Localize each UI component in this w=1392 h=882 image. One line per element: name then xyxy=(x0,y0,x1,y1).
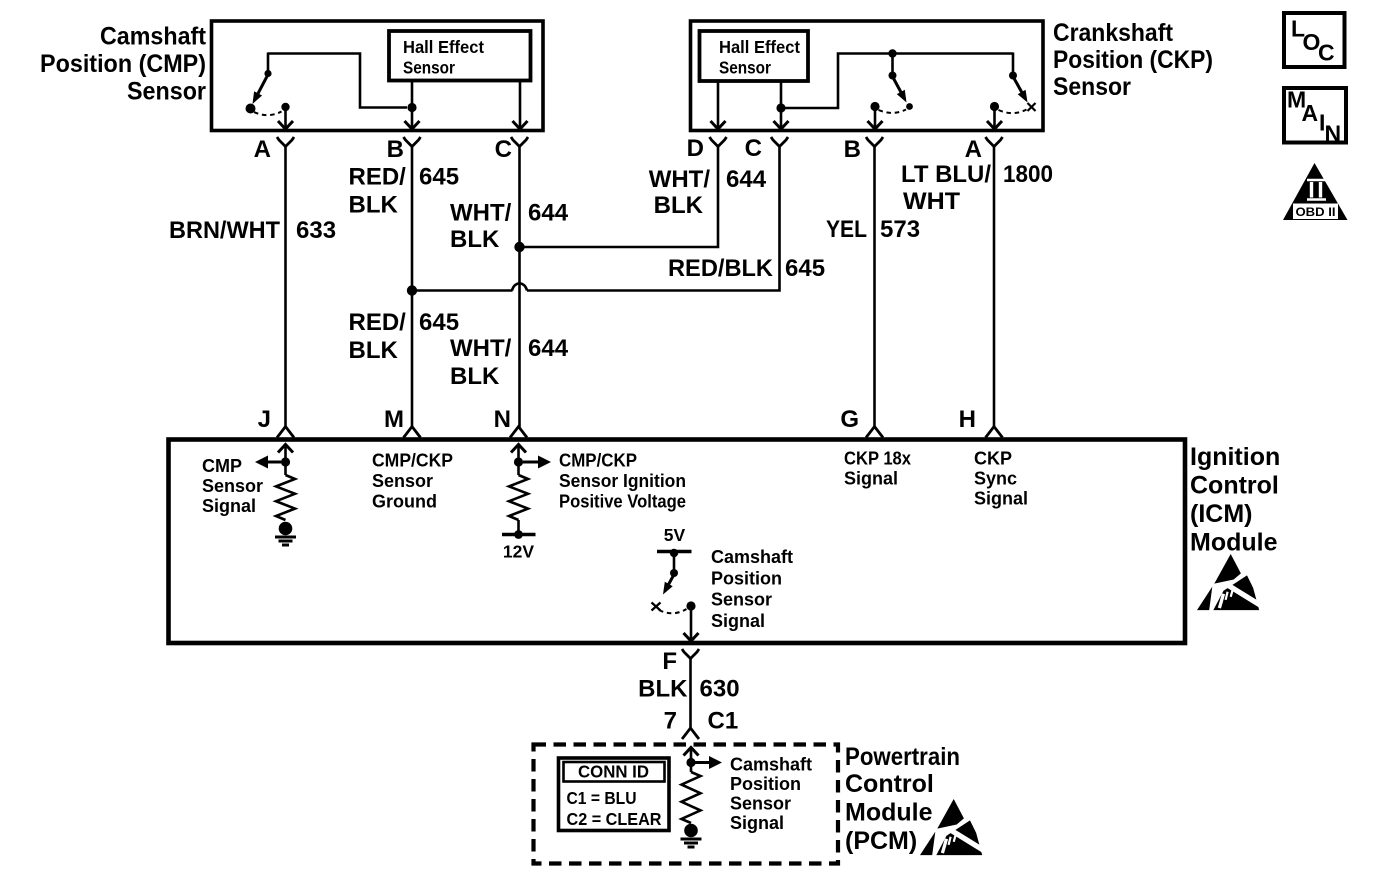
svg-text:Ignition: Ignition xyxy=(1190,443,1280,471)
svg-text:CONN ID: CONN ID xyxy=(578,762,649,782)
wire Hall(CMP) left lead xyxy=(411,80,414,104)
svg-text:644: 644 xyxy=(726,166,767,193)
svg-text:YEL: YEL xyxy=(826,216,867,243)
pin 7 male connector half xyxy=(682,728,699,739)
wire LT BLU/WHT 1800 (A to H) xyxy=(993,147,996,428)
wire BLK 630 (F to PCM) xyxy=(689,658,692,729)
svg-text:Module: Module xyxy=(1190,529,1278,557)
svg-text:C1: C1 xyxy=(708,708,739,735)
MAIN reference box xyxy=(1284,88,1346,143)
CMP switch right contact dot (pin A) xyxy=(281,103,289,111)
CKP switch A x-contact xyxy=(1028,103,1036,111)
svg-text:644: 644 xyxy=(528,335,569,362)
CKP switch B pivot dot xyxy=(889,72,897,80)
resistor R3 xyxy=(682,772,701,823)
svg-text:BLK: BLK xyxy=(349,192,399,219)
svg-text:BLK: BLK xyxy=(654,192,704,219)
wire 645 horizontal left of hop xyxy=(412,289,513,292)
svg-text:Sensor: Sensor xyxy=(403,58,455,78)
svg-text:CMP/CKP: CMP/CKP xyxy=(559,451,637,471)
junction dot CKP rail / switch B xyxy=(888,49,896,57)
svg-text:CMP/CKP: CMP/CKP xyxy=(372,451,453,471)
wire R2 to 12V rail xyxy=(517,520,520,534)
svg-text:(PCM): (PCM) xyxy=(845,827,917,855)
arrow to pin B (CKP) xyxy=(874,110,877,129)
wire to resistor R3 xyxy=(690,763,693,773)
CKP sensor outline box xyxy=(691,21,1044,131)
svg-text:C: C xyxy=(1318,40,1335,66)
pin G male connector half xyxy=(866,427,883,438)
svg-text:N: N xyxy=(494,406,511,433)
pin A female connector half xyxy=(277,137,294,147)
svg-text:A: A xyxy=(965,136,982,163)
arrow up into pin N xyxy=(517,446,520,459)
svg-text:Sensor: Sensor xyxy=(127,78,206,106)
dot on 5V bar xyxy=(670,549,678,557)
svg-text:BLK: BLK xyxy=(349,337,399,364)
CKP switch A dashed arc xyxy=(999,110,1027,114)
wire CKP switch B stub xyxy=(891,54,894,74)
svg-text:Hall Effect: Hall Effect xyxy=(403,37,484,57)
CONN ID table box xyxy=(559,758,670,831)
pin N male connector half xyxy=(510,427,527,438)
svg-text:7: 7 xyxy=(664,708,677,735)
svg-text:Camshaft: Camshaft xyxy=(100,23,207,51)
svg-text:Signal: Signal xyxy=(974,489,1028,509)
svg-text:B: B xyxy=(844,136,861,163)
svg-text:BRN/WHT: BRN/WHT xyxy=(169,217,280,244)
label Camshaft Position (CMP) Sensor xyxy=(40,23,207,106)
ESD-sensitive symbol (ICM) xyxy=(1197,554,1263,610)
svg-text:Signal: Signal xyxy=(202,496,256,516)
svg-text:CMP: CMP xyxy=(202,456,242,476)
pin A female connector half xyxy=(986,137,1003,147)
5V supply bar xyxy=(657,550,692,553)
Powertrain Control Module (PCM) dashed box xyxy=(534,745,839,864)
LOC reference box xyxy=(1284,13,1345,67)
arrow up into pin 7 (PCM) xyxy=(690,749,693,761)
svg-text:C1 = BLU: C1 = BLU xyxy=(567,788,637,808)
svg-text:Camshaft: Camshaft xyxy=(730,755,812,775)
switch S4 pivot dot xyxy=(670,569,678,577)
pin C female connector half xyxy=(511,137,528,147)
ESD-sensitive symbol (PCM) xyxy=(920,799,986,855)
wire Hall(CKP) to switch rail xyxy=(781,54,1013,109)
CMP sensor outline box xyxy=(212,21,544,131)
svg-text:C: C xyxy=(495,136,512,163)
junction dot Hall(CKP)-C xyxy=(776,103,785,112)
svg-text:5V: 5V xyxy=(664,525,686,545)
svg-text:WHT/: WHT/ xyxy=(649,166,711,193)
svg-text:645: 645 xyxy=(419,309,459,336)
svg-text:A: A xyxy=(254,136,271,163)
arrow CMP/CKP ignition voltage (right) xyxy=(523,461,540,464)
svg-text:F: F xyxy=(662,648,677,675)
switch S4 x-contact xyxy=(652,603,661,611)
arrow to pin C (CKP) xyxy=(780,111,783,128)
pin C female connector half xyxy=(771,137,788,147)
arrow to pin A (CKP) xyxy=(993,110,996,129)
svg-text:Module: Module xyxy=(845,799,933,827)
wire Hall(CMP) right lead + arrow to pin C xyxy=(519,80,522,128)
svg-text:A: A xyxy=(1302,100,1319,126)
arrow up into pin J xyxy=(284,446,287,459)
CMP switch pivot dot xyxy=(264,70,271,77)
CKP pin A contact dot xyxy=(990,102,999,111)
svg-text:D: D xyxy=(687,135,704,162)
svg-text:WHT: WHT xyxy=(903,188,960,215)
wire J to resistor R1 xyxy=(284,462,287,475)
svg-text:B: B xyxy=(387,136,404,163)
svg-text:RED/: RED/ xyxy=(349,309,407,336)
svg-text:Sensor: Sensor xyxy=(730,794,791,814)
pin H male connector half xyxy=(986,427,1003,438)
arrow to pin B xyxy=(411,111,414,128)
svg-text:Sensor: Sensor xyxy=(1053,73,1131,101)
CKP switch B blade S2 xyxy=(893,77,905,99)
svg-text:(ICM): (ICM) xyxy=(1190,500,1252,528)
svg-text:Positive Voltage: Positive Voltage xyxy=(559,491,686,511)
svg-text:Sensor Ignition: Sensor Ignition xyxy=(559,471,686,491)
wire CMP switch common to Hall pin B net xyxy=(268,54,407,108)
svg-text:Crankshaft: Crankshaft xyxy=(1053,19,1174,47)
wire WHT/BLK 644 branch (CKP D leg) xyxy=(524,147,718,248)
wire N to resistor R2 xyxy=(517,462,520,475)
svg-text:573: 573 xyxy=(880,216,920,243)
svg-text:H: H xyxy=(959,406,976,433)
svg-text:WHT/: WHT/ xyxy=(450,335,512,362)
ground G1 (ICM internal) xyxy=(279,522,293,536)
svg-text:Signal: Signal xyxy=(711,611,765,631)
wire RED/BLK 645 (B to M) xyxy=(411,147,414,428)
wire 645 hop over wire 644 xyxy=(512,283,527,290)
svg-text:Position: Position xyxy=(730,774,801,794)
wire Hall(CKP) left lead + arrow to pin D xyxy=(717,81,720,128)
svg-text:645: 645 xyxy=(785,255,825,282)
CKP switch A pivot dot xyxy=(1009,72,1017,80)
svg-text:C: C xyxy=(745,135,762,162)
pin F female connector half xyxy=(682,649,699,659)
pin J male connector half xyxy=(277,427,294,438)
switch S4 blade xyxy=(665,575,674,591)
CKP pin B contact dot xyxy=(870,102,879,111)
wire YEL 573 (B to G) xyxy=(873,147,876,428)
Ignition Control Module (ICM) box xyxy=(169,440,1186,644)
svg-text:M: M xyxy=(384,406,404,433)
wire BRN/WHT 633 (A to J) xyxy=(284,147,287,428)
svg-text:Sensor: Sensor xyxy=(202,476,263,496)
svg-text:Control: Control xyxy=(845,770,934,798)
svg-text:Sensor: Sensor xyxy=(372,471,433,491)
svg-text:630: 630 xyxy=(700,676,740,703)
svg-text:BLK: BLK xyxy=(450,226,500,253)
svg-text:12V: 12V xyxy=(503,542,534,562)
arrow to pin F xyxy=(690,608,693,640)
junction dot PCM input xyxy=(686,758,695,767)
CMP switch throw dashed arc xyxy=(254,112,282,116)
svg-text:Signal: Signal xyxy=(844,469,898,489)
CONN ID header box xyxy=(564,762,665,782)
CKP switch B end contact dot xyxy=(906,103,913,110)
switch S4 output contact dot xyxy=(686,601,695,610)
svg-text:644: 644 xyxy=(528,200,569,227)
resistor R1 xyxy=(276,475,295,520)
ground G2 (PCM internal) xyxy=(684,824,698,838)
svg-text:Sync: Sync xyxy=(974,469,1017,489)
wire Hall(CKP) right lead xyxy=(780,81,783,106)
resistor R2 xyxy=(509,475,528,520)
pin D female connector half xyxy=(710,137,727,147)
CMP switch left contact dot xyxy=(246,104,256,114)
svg-text:Signal: Signal xyxy=(730,813,784,833)
svg-text:CKP: CKP xyxy=(974,449,1012,469)
svg-text:645: 645 xyxy=(419,164,459,191)
wire WHT/BLK 644 (C to N) xyxy=(518,147,521,428)
CKP switch B dashed arc xyxy=(879,110,907,113)
CMP switch blade S1 xyxy=(254,75,268,101)
dot on 12V bar xyxy=(514,530,523,539)
svg-text:1800: 1800 xyxy=(1003,161,1053,188)
svg-text:BLK: BLK xyxy=(450,363,500,390)
OBD II triangle symbol xyxy=(1283,163,1348,220)
svg-text:Ground: Ground xyxy=(372,491,437,511)
svg-text:Hall Effect: Hall Effect xyxy=(719,37,800,57)
arrow CMP Sensor Signal (left) xyxy=(266,461,281,464)
arrow from CMP switch to pin A xyxy=(284,110,287,128)
pin M male connector half xyxy=(404,427,421,438)
Hall Effect Sensor box U1 (CMP) xyxy=(389,31,531,81)
label Crankshaft Position (CKP) Sensor xyxy=(1053,19,1213,101)
svg-text:Powertrain: Powertrain xyxy=(845,743,960,771)
wire CMP switch pivot stub xyxy=(267,53,270,72)
12V supply bar xyxy=(502,533,536,536)
svg-text:633: 633 xyxy=(296,217,336,244)
svg-text:WHT/: WHT/ xyxy=(450,200,512,227)
svg-text:Sensor: Sensor xyxy=(719,58,771,78)
junction dot J net xyxy=(281,457,290,466)
wire RED/BLK 645 branch (CKP C leg) xyxy=(527,147,780,291)
svg-text:J: J xyxy=(258,406,271,433)
wire CKP switch A stub xyxy=(1012,53,1015,74)
svg-text:BLK: BLK xyxy=(638,676,688,703)
arrow Camshaft Position Sensor Signal (right) xyxy=(695,761,711,764)
svg-text:RED/BLK: RED/BLK xyxy=(668,255,774,282)
junction dot on wire 644 xyxy=(514,242,524,252)
svg-text:G: G xyxy=(840,406,859,433)
pin B female connector half xyxy=(866,137,883,147)
svg-text:C2 = CLEAR: C2 = CLEAR xyxy=(567,809,662,829)
svg-text:Position (CKP): Position (CKP) xyxy=(1053,46,1213,74)
svg-text:OBD II: OBD II xyxy=(1296,205,1336,219)
svg-text:Position (CMP): Position (CMP) xyxy=(40,50,206,78)
switch S4 dashed arc xyxy=(659,609,687,613)
pin B female connector half xyxy=(404,137,421,147)
svg-text:Control: Control xyxy=(1190,472,1279,500)
svg-text:CKP 18x: CKP 18x xyxy=(844,449,911,469)
svg-text:Position: Position xyxy=(711,568,782,588)
svg-text:RED/: RED/ xyxy=(349,164,407,191)
junction dot Hall(CMP)-B xyxy=(407,103,416,112)
CKP switch A blade S3 xyxy=(1013,77,1026,100)
Hall Effect Sensor box U2 (CKP) xyxy=(700,31,809,81)
junction dot on wire 645 xyxy=(407,285,417,295)
svg-text:Sensor: Sensor xyxy=(711,590,772,610)
svg-text:LT BLU/: LT BLU/ xyxy=(901,161,991,188)
svg-text:Camshaft: Camshaft xyxy=(711,547,793,567)
wire 5V to switch pivot xyxy=(673,553,676,571)
junction dot N net xyxy=(514,457,523,466)
svg-text:N: N xyxy=(1325,121,1342,147)
